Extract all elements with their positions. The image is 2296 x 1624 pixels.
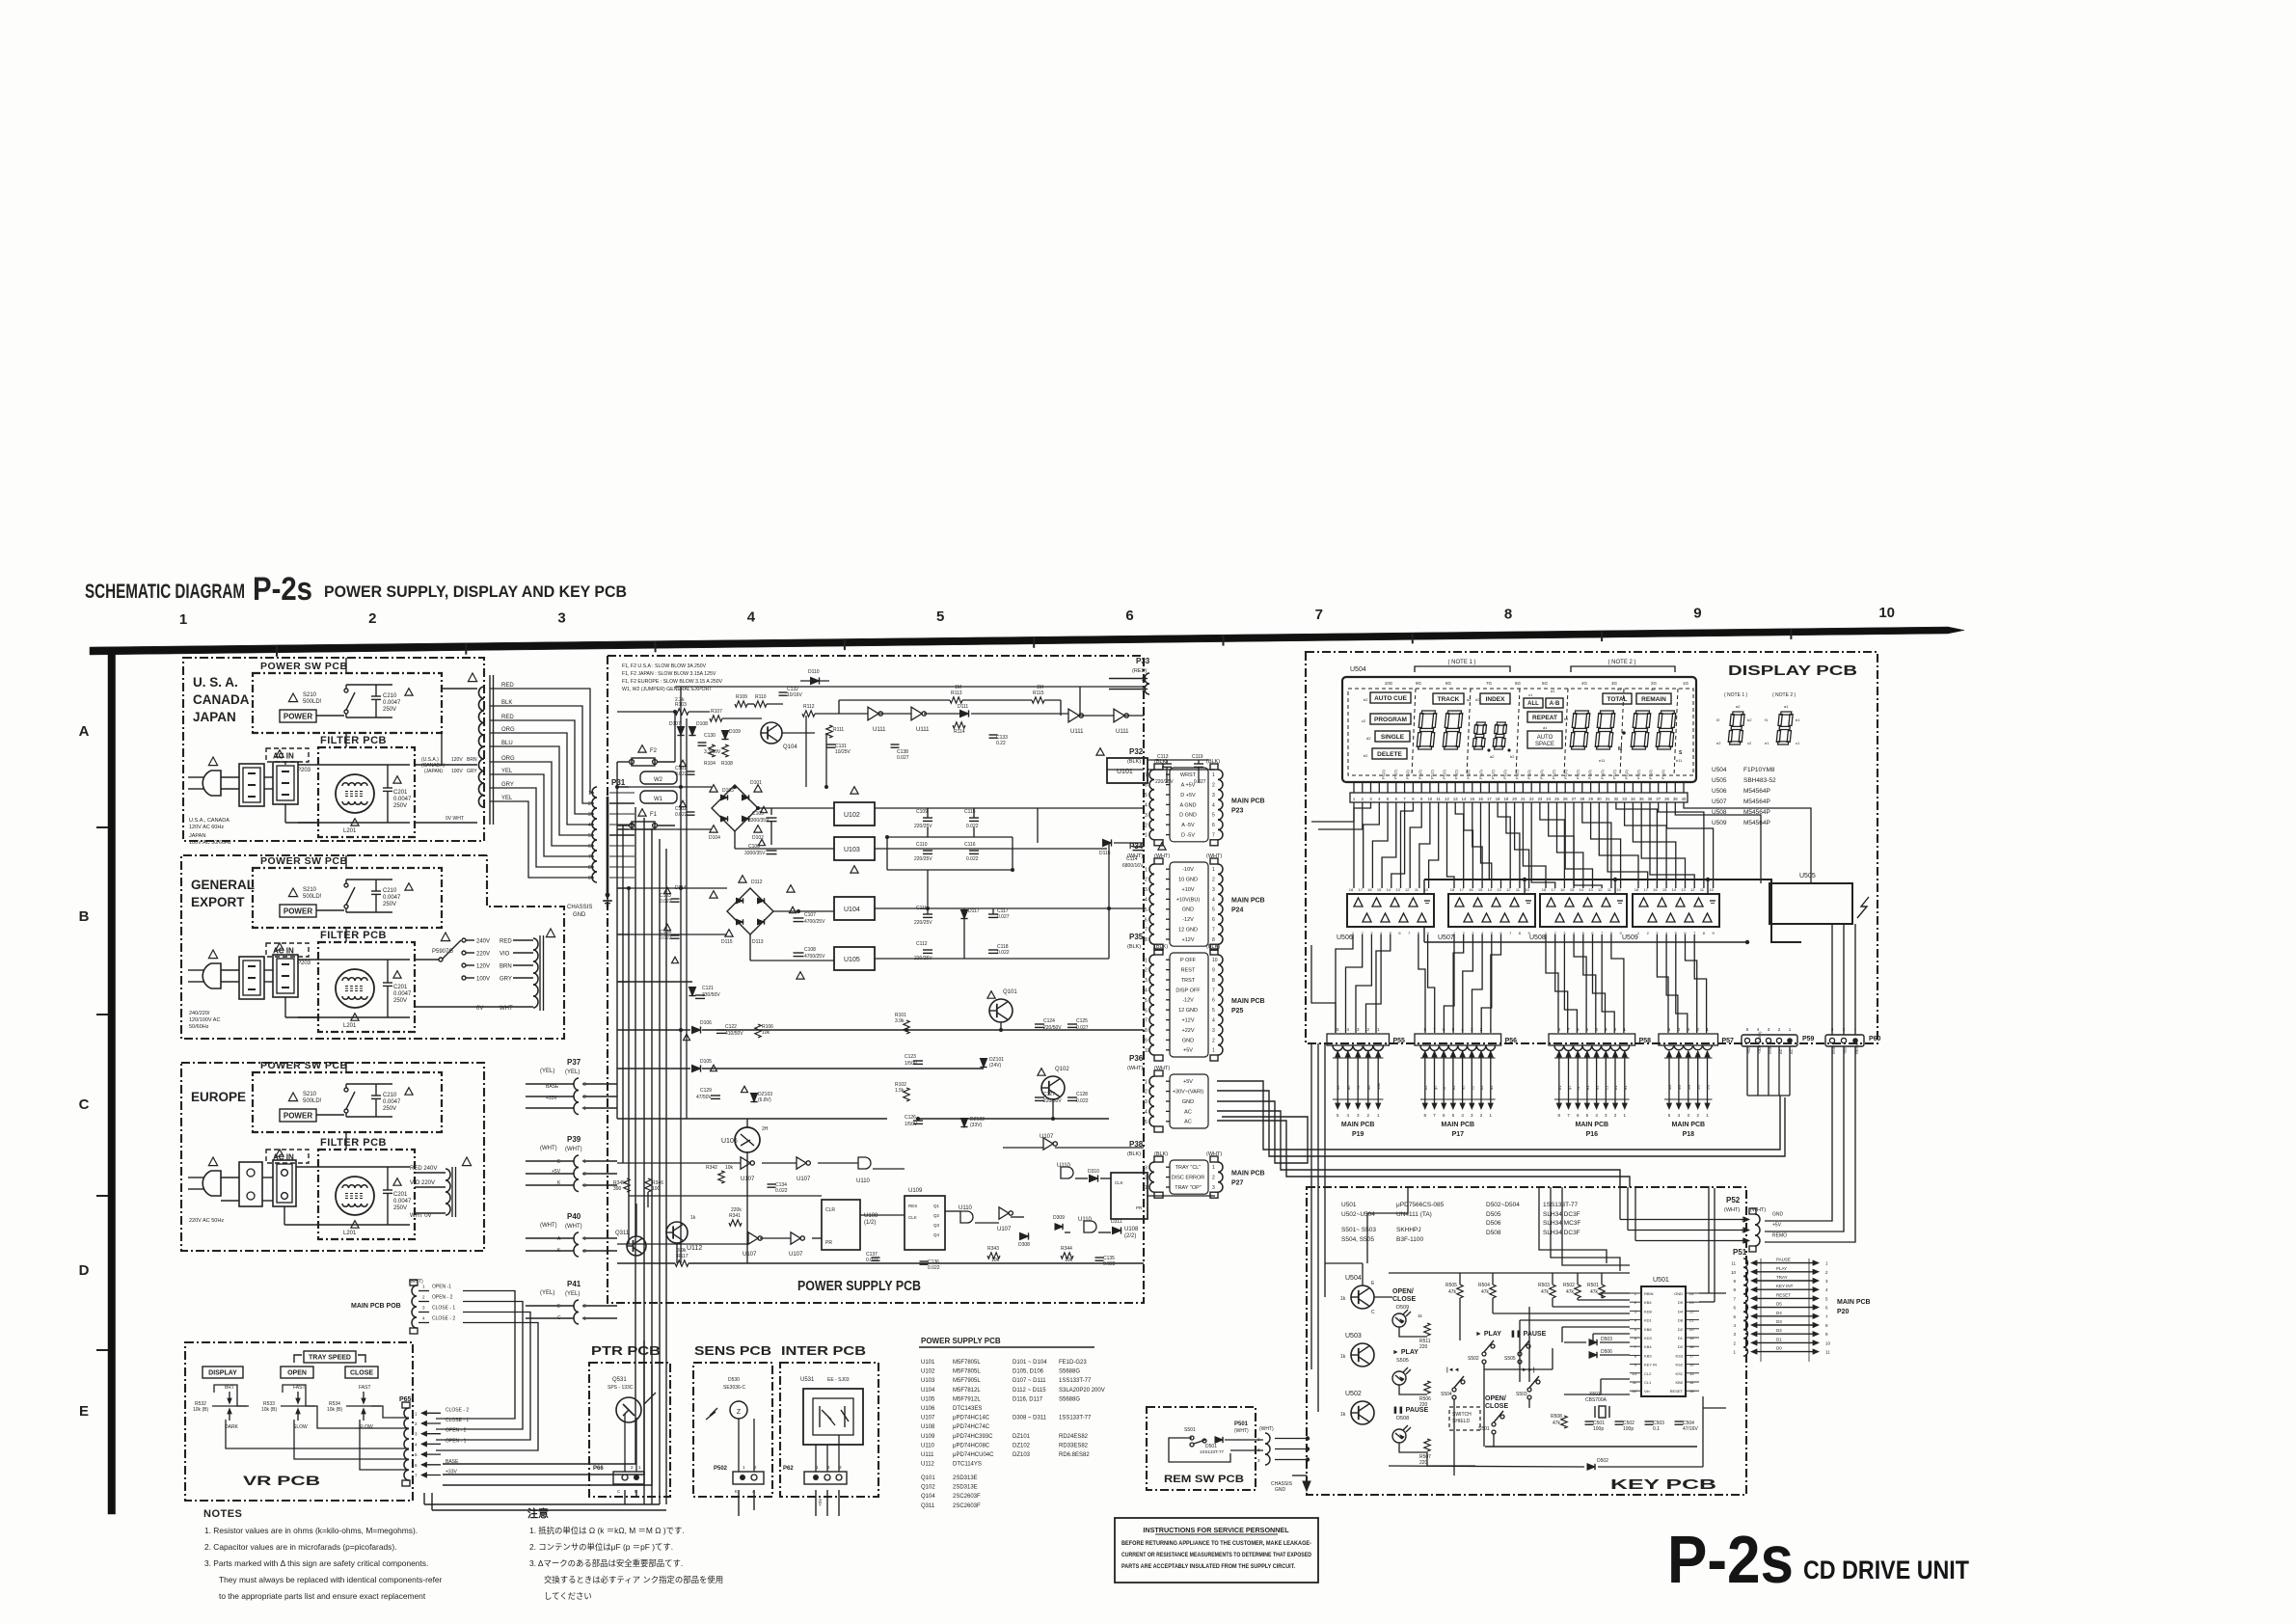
svg-text:U505: U505 xyxy=(1712,777,1727,784)
driver IC U506 xyxy=(1337,887,1434,941)
svg-text:D4: D4 xyxy=(1678,1309,1684,1313)
svg-text:10k: 10k xyxy=(991,1258,1000,1263)
svg-text:OPEN - 2: OPEN - 2 xyxy=(432,1295,453,1301)
svg-text:6G: 6G xyxy=(1515,681,1522,686)
capacitor C101 xyxy=(675,760,695,777)
svg-text:R508: R508 xyxy=(1551,1414,1562,1420)
svg-text:U112: U112 xyxy=(687,1245,702,1252)
zener DZ103 6.8V xyxy=(742,1086,773,1103)
display pcb outline xyxy=(1306,652,1877,1043)
connector P35 to MAIN PCB P25 xyxy=(1127,933,1265,1061)
connector P34 to MAIN PCB P24 xyxy=(1127,842,1265,950)
diode D308 xyxy=(1018,1232,1030,1248)
svg-text:D508: D508 xyxy=(1396,1416,1409,1421)
svg-text:0.022: 0.022 xyxy=(660,899,672,905)
BASE +33V long wires to bus xyxy=(443,1312,652,1485)
wires europe box xyxy=(221,1063,346,1225)
resistor R109 10k xyxy=(735,694,747,707)
svg-text:+10V: +10V xyxy=(1182,887,1195,893)
capacitor C111 xyxy=(914,906,932,926)
bridge rectifier D101-D104 xyxy=(709,780,764,841)
svg-text:+5V: +5V xyxy=(1183,1079,1193,1085)
svg-text:P1(2): P1(2) xyxy=(1381,770,1386,779)
svg-text:POWER SUPPLY, DISPLAY AND KEY: POWER SUPPLY, DISPLAY AND KEY PCB xyxy=(324,582,627,601)
svg-text:P1(2): P1(2) xyxy=(1624,770,1629,779)
svg-text:U. S. A.: U. S. A. xyxy=(193,675,238,690)
capacitor C118 xyxy=(988,944,1010,956)
svg-text:D311: D311 xyxy=(1111,1219,1122,1225)
svg-text:3G: 3G xyxy=(1611,681,1618,686)
europe inlet P204 xyxy=(273,1150,296,1206)
svg-text:U112: U112 xyxy=(921,1462,935,1468)
svg-text:P16: P16 xyxy=(1586,1131,1599,1138)
ac plug (europe) xyxy=(188,1157,224,1224)
svg-text:CLR: CLR xyxy=(825,1207,835,1213)
power supply interior bus filler xyxy=(615,687,1111,1263)
svg-text:7: 7 xyxy=(1212,833,1215,839)
svg-text:1. Resistor values are in oh: 1. Resistor values are in ohms (k=kilo-o… xyxy=(204,1526,418,1535)
svg-text:1G: 1G xyxy=(1683,681,1689,686)
svg-text:SLH34 DC3F: SLH34 DC3F xyxy=(1543,1211,1580,1218)
svg-text:P56: P56 xyxy=(1505,1038,1518,1044)
notes text japanese xyxy=(529,1526,723,1601)
svg-text:100: 100 xyxy=(652,1186,661,1192)
svg-text:15: 15 xyxy=(1377,887,1382,892)
svg-text:U504: U504 xyxy=(1345,1275,1362,1282)
svg-text:25: 25 xyxy=(1554,797,1559,801)
svg-text:a1: a1 xyxy=(1543,725,1548,730)
svg-text:μPD74HC393C: μPD74HC393C xyxy=(953,1434,993,1440)
driver IC U509 xyxy=(1622,887,1719,941)
svg-text:P20: P20 xyxy=(1837,1309,1850,1315)
svg-text:CD DRIVE UNIT: CD DRIVE UNIT xyxy=(1803,1556,1969,1584)
capacitor C114 6800/16V xyxy=(1122,843,1166,869)
svg-text:1: 1 xyxy=(1212,1165,1215,1171)
CD DRIVE UNIT logo xyxy=(1803,1556,1969,1584)
svg-text:0.022: 0.022 xyxy=(928,1265,940,1271)
svg-text:20: 20 xyxy=(1689,1327,1694,1332)
svg-text:4G: 4G xyxy=(1581,681,1588,686)
capacitor C134 0.022 xyxy=(768,1182,788,1194)
svg-text:P1(2): P1(2) xyxy=(1466,770,1471,779)
svg-text:D117: D117 xyxy=(968,908,980,914)
svg-text:PR: PR xyxy=(1136,1205,1143,1210)
svg-text:(WHT): (WHT) xyxy=(1259,1426,1274,1432)
svg-text:d2: d2 xyxy=(1366,736,1371,741)
svg-text:P1(2): P1(2) xyxy=(1526,770,1531,779)
svg-text:47k: 47k xyxy=(1541,1289,1550,1295)
connector P32 to MAIN PCB P23 xyxy=(1127,747,1265,846)
transistor U504 xyxy=(1340,1275,1375,1315)
svg-text:5: 5 xyxy=(1145,998,1148,1004)
main vertical bus from P31 down xyxy=(424,797,839,1516)
svg-text:10 GND: 10 GND xyxy=(1178,878,1198,883)
LED D505 PLAY xyxy=(1392,1349,1418,1385)
svg-text:C127: C127 xyxy=(1043,1092,1055,1097)
svg-text:1: 1 xyxy=(1212,1048,1215,1054)
svg-text:C122: C122 xyxy=(725,1024,737,1030)
connector MAIN PCB POB xyxy=(351,1279,455,1334)
chassis ground rem sw xyxy=(1271,1475,1310,1493)
svg-text:-10V: -10V xyxy=(1182,867,1194,873)
svg-text:C129: C129 xyxy=(700,1088,712,1094)
svg-text:0.0047: 0.0047 xyxy=(383,1099,401,1105)
svg-text:C201: C201 xyxy=(393,1192,408,1198)
svg-text:SCHEMATIC DIAGRAM: SCHEMATIC DIAGRAM xyxy=(85,581,245,603)
vfd mode labels left xyxy=(1362,692,1411,759)
svg-text:REST: REST xyxy=(1181,968,1196,974)
vfd bottom rotated pin labels xyxy=(1381,770,1665,779)
svg-text:P1(2): P1(2) xyxy=(1661,770,1665,779)
svg-text:REMAIN: REMAIN xyxy=(1641,696,1666,703)
svg-text:CLK: CLK xyxy=(908,1215,917,1220)
svg-text:13: 13 xyxy=(1453,797,1458,801)
svg-text:KB8: KB8 xyxy=(1644,1327,1652,1332)
svg-text:(WHT): (WHT) xyxy=(540,1146,557,1151)
svg-text:FILTER PCB: FILTER PCB xyxy=(320,930,387,941)
svg-text:PLAY: PLAY xyxy=(1776,1266,1787,1271)
svg-text:U111: U111 xyxy=(1070,729,1084,735)
note1 single digit glyph xyxy=(1716,692,1752,745)
svg-text:E: E xyxy=(79,1403,89,1420)
svg-text:TRAY "OP": TRAY "OP" xyxy=(1175,1185,1202,1191)
capacitor C132 xyxy=(779,687,803,698)
svg-text:15: 15 xyxy=(1470,797,1474,801)
svg-text:2SD313E: 2SD313E xyxy=(953,1485,978,1491)
switch S501 remote xyxy=(1169,1427,1230,1462)
svg-text:5: 5 xyxy=(1212,907,1215,913)
svg-text:0.022: 0.022 xyxy=(1103,1261,1116,1267)
svg-text:2: 2 xyxy=(583,1304,586,1310)
svg-text:(YEL): (YEL) xyxy=(565,1069,580,1075)
svg-text:MAIN PCB: MAIN PCB xyxy=(1231,898,1265,905)
svg-text:INSTRUCTIONS FOR SERVICE PERSO: INSTRUCTIONS FOR SERVICE PERSONNEL xyxy=(1143,1526,1289,1534)
svg-text:KB4: KB4 xyxy=(1644,1300,1652,1305)
svg-text:17: 17 xyxy=(1459,887,1464,892)
svg-text:3: 3 xyxy=(583,1183,586,1189)
svg-text:C130: C130 xyxy=(704,733,716,739)
svg-text:D113: D113 xyxy=(752,939,764,945)
svg-text:SPACE: SPACE xyxy=(1535,742,1554,747)
svg-text:10k (B): 10k (B) xyxy=(261,1407,277,1413)
svg-text:a2: a2 xyxy=(1467,697,1472,702)
svg-text:C210: C210 xyxy=(383,888,397,894)
svg-text:4: 4 xyxy=(1212,1018,1215,1024)
vfd ALL A-B REPEAT AUTO SPACE labels xyxy=(1524,689,1569,748)
svg-text:Q2: Q2 xyxy=(933,1213,940,1218)
connector P60 xyxy=(1825,1027,1881,1054)
svg-text:NOTES: NOTES xyxy=(203,1508,242,1520)
capacitor C124 220/50V xyxy=(1035,1018,1062,1031)
svg-text:(WHT): (WHT) xyxy=(565,1224,582,1230)
svg-text:19: 19 xyxy=(1504,797,1509,801)
svg-text:250V: 250V xyxy=(393,803,407,809)
connector P37 xyxy=(540,1058,586,1115)
power sw pcb (general export) xyxy=(253,855,442,928)
transformer to P31 wires xyxy=(490,689,594,878)
svg-text:AC: AC xyxy=(1184,1109,1192,1115)
svg-text:POWER SUPPLY PCB: POWER SUPPLY PCB xyxy=(797,1279,921,1294)
svg-text:P5907G: P5907G xyxy=(432,949,453,955)
svg-text:U106: U106 xyxy=(921,1406,935,1412)
svg-text:12: 12 xyxy=(1506,887,1511,892)
svg-text:L201: L201 xyxy=(343,1231,357,1236)
svg-text:K: K xyxy=(735,1489,738,1494)
capacitor C126 1/50V xyxy=(905,1115,923,1127)
capacitor C130 xyxy=(698,733,721,755)
svg-text:P62: P62 xyxy=(783,1466,794,1472)
svg-text:R109: R109 xyxy=(736,694,747,700)
svg-text:-12V: -12V xyxy=(1182,917,1194,923)
svg-text:CLOSE - 1: CLOSE - 1 xyxy=(432,1306,455,1312)
svg-text:0.022: 0.022 xyxy=(1076,1098,1089,1104)
svg-text:5: 5 xyxy=(588,833,591,839)
svg-text:13: 13 xyxy=(1689,1389,1694,1394)
svg-text:P17: P17 xyxy=(1452,1131,1465,1138)
sensor D530 xyxy=(706,1377,747,1420)
key pcb outline xyxy=(1307,1187,1746,1495)
svg-text:R501: R501 xyxy=(1587,1283,1599,1288)
svg-text:C108: C108 xyxy=(804,947,816,953)
capacitor C504 47/16V xyxy=(1675,1421,1699,1432)
svg-text:14: 14 xyxy=(1672,887,1677,892)
svg-text:B3F-1100: B3F-1100 xyxy=(1396,1236,1423,1243)
svg-text:-12V: -12V xyxy=(1182,998,1194,1004)
svg-text:250V: 250V xyxy=(393,998,407,1004)
svg-text:U105: U105 xyxy=(844,957,860,963)
power supply pcb outline xyxy=(608,656,1144,1303)
regulator U104 xyxy=(787,885,875,920)
svg-text:FILTER PCB: FILTER PCB xyxy=(320,735,387,746)
svg-text:C126: C126 xyxy=(905,1115,916,1121)
svg-text:220/25V: 220/25V xyxy=(1155,779,1174,785)
power sw pcb (europe) xyxy=(253,1060,442,1132)
svg-text:OPEN: OPEN xyxy=(287,1370,307,1377)
transistor U112 xyxy=(666,1215,702,1252)
svg-text:+12V: +12V xyxy=(1182,1018,1195,1024)
svg-text:KD1: KD1 xyxy=(1644,1318,1653,1323)
svg-text:BLU: BLU xyxy=(501,741,513,746)
key pcb internal wires xyxy=(1325,1263,1726,1475)
svg-text:P203: P203 xyxy=(297,961,311,966)
svg-text:MAIN PCB: MAIN PCB xyxy=(1341,1122,1375,1128)
svg-text:2SD313E: 2SD313E xyxy=(953,1475,978,1481)
svg-text:D508: D508 xyxy=(1486,1230,1501,1236)
capacitor C119 xyxy=(1192,754,1206,785)
capacitor C117 xyxy=(988,908,1010,920)
capacitor C135 0.022 xyxy=(1095,1256,1116,1267)
svg-text:19: 19 xyxy=(1689,1336,1694,1340)
svg-text:a2: a2 xyxy=(1736,704,1741,709)
svg-text:L201: L201 xyxy=(343,828,357,834)
switch S504 xyxy=(1441,1367,1465,1399)
svg-text:C125: C125 xyxy=(1076,1018,1088,1024)
svg-text:(33V): (33V) xyxy=(970,1123,983,1128)
svg-text:SLOW: SLOW xyxy=(293,1424,308,1430)
svg-text:(1/2): (1/2) xyxy=(864,1220,876,1226)
svg-text:μPD74HC74C: μPD74HC74C xyxy=(953,1424,990,1430)
svg-text:CLOSE: CLOSE xyxy=(350,1370,373,1377)
svg-text:D308 ~ D311: D308 ~ D311 xyxy=(1013,1416,1047,1421)
svg-text:2. コンテンサの単位はμF (p ＝pF )てす.: 2. コンテンサの単位はμF (p ＝pF )てす. xyxy=(529,1542,673,1552)
svg-text:U507: U507 xyxy=(1712,798,1727,805)
svg-text:13: 13 xyxy=(1681,887,1686,892)
svg-text:μPD74HCU04C: μPD74HCU04C xyxy=(953,1452,994,1458)
svg-text:14: 14 xyxy=(1689,1380,1694,1385)
svg-text:P51: P51 xyxy=(1733,1248,1747,1257)
svg-text:+12V: +12V xyxy=(1182,937,1195,943)
svg-text:22: 22 xyxy=(1529,797,1534,801)
svg-text:SPS - 133C: SPS - 133C xyxy=(608,1385,634,1391)
svg-text:240/220/: 240/220/ xyxy=(189,1011,210,1016)
svg-text:Z: Z xyxy=(737,1409,742,1416)
svg-text:R111: R111 xyxy=(833,727,844,733)
AC IN label (general export) xyxy=(266,943,309,957)
svg-text:10: 10 xyxy=(1428,797,1433,801)
svg-text:U103: U103 xyxy=(921,1378,935,1384)
svg-text:They must always be replac: They must always be replaced with identi… xyxy=(219,1575,443,1584)
svg-text:10/16V: 10/16V xyxy=(787,692,803,698)
vfd TRACK INDEX labels xyxy=(1433,693,1510,704)
svg-text:120/100V AC: 120/100V AC xyxy=(189,1017,220,1023)
svg-text:C119: C119 xyxy=(1192,754,1203,760)
svg-text:4G: 4G xyxy=(1667,1085,1672,1090)
svg-text:POWER SW PCB: POWER SW PCB xyxy=(260,661,348,672)
svg-text:U111: U111 xyxy=(921,1452,934,1458)
svg-text:e11: e11 xyxy=(1599,758,1606,763)
svg-text:KEY INT: KEY INT xyxy=(1776,1284,1794,1288)
resistor R102 1.5k xyxy=(895,1082,909,1101)
crystal X501 CBS700A xyxy=(1585,1392,1609,1418)
svg-text:U503: U503 xyxy=(1345,1333,1362,1340)
svg-text:U502~U504: U502~U504 xyxy=(1341,1211,1375,1218)
svg-text:11: 11 xyxy=(1437,797,1442,801)
svg-text:P1(2): P1(2) xyxy=(1600,770,1605,779)
svg-text:P32: P32 xyxy=(1129,747,1144,756)
svg-text:SBH483-52: SBH483-52 xyxy=(1743,777,1776,784)
connector P40 xyxy=(540,1212,586,1257)
svg-text:SINGLE: SINGLE xyxy=(1381,734,1405,741)
capacitor C113 xyxy=(1155,754,1174,785)
svg-text:μPD74HC14C: μPD74HC14C xyxy=(953,1416,990,1421)
svg-text:REM SW PCB: REM SW PCB xyxy=(1164,1474,1244,1485)
svg-text:b2: b2 xyxy=(1479,1085,1484,1090)
connector P59 xyxy=(1742,1027,1815,1096)
svg-text:23: 23 xyxy=(1689,1300,1694,1305)
flip flop U108 2/2 xyxy=(1111,1173,1148,1239)
svg-text:47k: 47k xyxy=(1481,1289,1490,1295)
svg-text:► PLAY: ► PLAY xyxy=(1392,1349,1418,1356)
svg-text:120V AC 60Hz: 120V AC 60Hz xyxy=(189,825,224,830)
driver IC U507 xyxy=(1438,887,1535,941)
svg-text:CL1: CL1 xyxy=(1644,1380,1652,1385)
voltage selector S5907G xyxy=(415,929,555,1012)
inverter U107 e xyxy=(997,1207,1013,1232)
svg-text:410/50V: 410/50V xyxy=(725,1031,743,1037)
svg-text:U103: U103 xyxy=(844,847,860,853)
svg-text:P33: P33 xyxy=(1136,657,1150,665)
regulator U101 xyxy=(1096,748,1148,783)
svg-text:KB9: KB9 xyxy=(1644,1353,1652,1358)
svg-text:1k: 1k xyxy=(1418,1313,1423,1318)
svg-text:D308: D308 xyxy=(1018,1242,1030,1248)
capacitor C122 410/50V xyxy=(716,1024,743,1037)
svg-text:23: 23 xyxy=(1538,797,1543,801)
svg-text:D105: D105 xyxy=(700,1059,712,1065)
svg-text:330/50V: 330/50V xyxy=(702,992,720,998)
svg-text:KEY PCB: KEY PCB xyxy=(1610,1477,1716,1493)
resistor R115 1M xyxy=(1032,685,1044,703)
svg-text:A +5V: A +5V xyxy=(1181,783,1196,789)
svg-text:UN4111 (TA): UN4111 (TA) xyxy=(1396,1211,1432,1218)
switch S501 OPEN/CLOSE xyxy=(1478,1395,1508,1434)
svg-text:W1: W1 xyxy=(654,797,663,802)
display wiring maze lower xyxy=(1311,934,1707,1033)
svg-text:24: 24 xyxy=(1546,797,1551,801)
resistor R341 220k xyxy=(729,1207,742,1226)
svg-text:P1(2): P1(2) xyxy=(1393,770,1398,779)
AC input section U.S.A. CANADA JAPAN box xyxy=(183,658,484,841)
svg-text:D502: D502 xyxy=(1597,1458,1608,1464)
svg-text:M5F7805L: M5F7805L xyxy=(953,1360,981,1366)
fuse F2 xyxy=(617,745,675,766)
svg-text:U502: U502 xyxy=(1345,1391,1362,1397)
svg-text:250V: 250V xyxy=(383,902,396,907)
svg-text:390: 390 xyxy=(613,1186,622,1192)
connector P38 to MAIN PCB P27 xyxy=(1127,1140,1265,1198)
svg-text:C116: C116 xyxy=(964,842,976,848)
svg-text:D2: D2 xyxy=(1776,1328,1782,1333)
svg-text:U507: U507 xyxy=(1438,934,1454,941)
power sw pcb (usa) xyxy=(253,661,442,733)
svg-text:P-2s: P-2s xyxy=(1667,1522,1794,1597)
svg-text:10G: 10G xyxy=(1385,681,1393,686)
svg-text:22: 22 xyxy=(1689,1309,1694,1313)
svg-text:7: 7 xyxy=(1145,772,1148,778)
svg-text:FAST: FAST xyxy=(359,1385,371,1391)
svg-text:1k: 1k xyxy=(1340,1412,1346,1418)
svg-text:1k: 1k xyxy=(1340,1296,1346,1302)
svg-text:AC IN: AC IN xyxy=(273,1153,294,1162)
svg-text:37: 37 xyxy=(1656,797,1661,801)
svg-text:250V: 250V xyxy=(393,1205,407,1211)
svg-text:P59: P59 xyxy=(1802,1036,1815,1042)
svg-text:0.022: 0.022 xyxy=(866,1258,878,1263)
svg-text:MAIN PCB: MAIN PCB xyxy=(1837,1299,1871,1306)
svg-text:R343: R343 xyxy=(987,1246,999,1252)
svg-text:U505: U505 xyxy=(1799,873,1816,880)
svg-text:U107: U107 xyxy=(921,1416,935,1421)
svg-text:1: 1 xyxy=(1145,1185,1148,1191)
resistors R104 R108 xyxy=(704,744,733,767)
ruler bar xyxy=(90,627,1964,655)
svg-text:POWER: POWER xyxy=(284,712,312,720)
svg-text:10: 10 xyxy=(1145,1048,1150,1054)
P37-P41 signal stubs xyxy=(526,1084,617,1321)
svg-text:C201: C201 xyxy=(393,790,408,796)
svg-text:17: 17 xyxy=(1551,887,1555,892)
svg-text:U104: U104 xyxy=(844,907,860,913)
svg-text:10: 10 xyxy=(1825,1340,1831,1345)
svg-text:U504: U504 xyxy=(1350,666,1366,673)
svg-text:D +5V: D +5V xyxy=(1180,793,1196,798)
svg-text:8: 8 xyxy=(1212,978,1215,984)
svg-text:( NOTE 2 ): ( NOTE 2 ) xyxy=(1772,692,1796,698)
DISPLAY PCB label xyxy=(1728,663,1857,679)
svg-text:U107: U107 xyxy=(789,1252,803,1258)
svg-text:INDEX: INDEX xyxy=(1486,696,1506,703)
capacitor C127 220/50V xyxy=(1035,1092,1062,1104)
